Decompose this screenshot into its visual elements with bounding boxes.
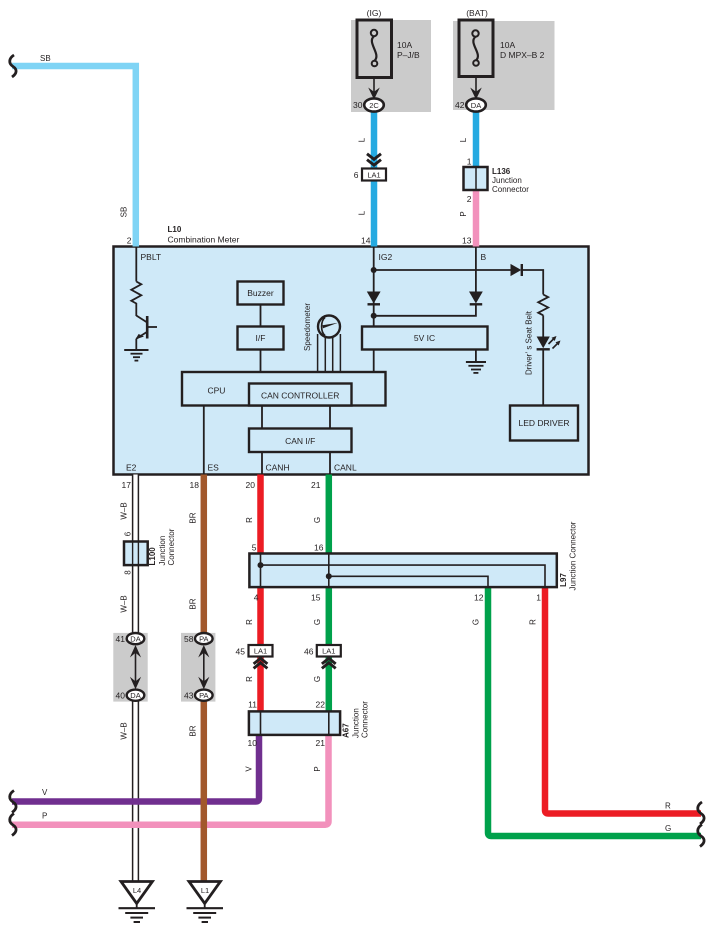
svg-text:5: 5 (252, 543, 257, 553)
svg-text:LA1: LA1 (367, 171, 380, 180)
gray panel behind fuse (IG) (351, 20, 431, 112)
wire diode D2 to node line (374, 304, 476, 316)
svg-text:18: 18 (190, 480, 200, 490)
svg-text:10A: 10A (397, 40, 412, 50)
node on IG2 wire (371, 267, 377, 273)
arrow from fuse (IG) to connector 2C (368, 78, 380, 100)
svg-text:Junction: Junction (352, 708, 361, 738)
break symbol on wire G at right edge (698, 825, 704, 847)
wire from resistor to transistor Q1 (135, 305, 137, 317)
svg-text:BR: BR (189, 725, 198, 736)
inline connector 43 PA (bottom) (184, 690, 213, 701)
inline connector arrows between DA 41 and DA 40 (130, 645, 141, 689)
diode D3 feeding seat belt lamp branch (511, 264, 522, 276)
svg-text:1: 1 (536, 593, 541, 603)
wire 5V IC to internal ground (475, 350, 477, 363)
wire P from junction connector A67 pin 21 to left edge (12, 735, 329, 825)
inline connector 58 PA (top) (184, 633, 213, 644)
wire W-B from connector DA 40 to ground L4 (120, 701, 139, 882)
wires CAN CONTROLLER to CAN I/F (262, 406, 330, 429)
fuse F2 (BAT) 10A D MPX-B 2 (459, 8, 545, 77)
connector chevrons on wire G below LA1 (322, 658, 336, 668)
arrow from fuse (BAT) to connector DA (470, 77, 482, 100)
svg-text:CAN CONTROLLER: CAN CONTROLLER (261, 391, 339, 401)
svg-text:22: 22 (316, 700, 326, 710)
svg-text:W–B: W–B (120, 502, 129, 519)
svg-text:12: 12 (474, 593, 484, 603)
connector 45 LA1 on wire R (236, 645, 273, 657)
svg-text:16: 16 (314, 543, 324, 553)
svg-text:17: 17 (122, 480, 132, 490)
connector 46 LA1 on wire G (304, 645, 341, 657)
svg-text:DA: DA (130, 634, 140, 643)
junction connector L97 (249, 521, 577, 590)
break symbol on wire P at left edge (10, 814, 16, 836)
svg-text:(IG): (IG) (367, 8, 382, 18)
svg-text:LED DRIVER: LED DRIVER (518, 418, 569, 428)
svg-text:41: 41 (116, 634, 126, 644)
svg-text:L136: L136 (492, 167, 511, 176)
wire LED to LED DRIVER (542, 349, 544, 405)
wires CAN I/F to meter pins CANH CANL (262, 452, 330, 475)
svg-text:Connector: Connector (167, 528, 176, 565)
wire BR from meter pin 18 (ES) to connector PA 58 (189, 475, 204, 634)
wire V from junction connector A67 pin 10 to left edge (12, 735, 259, 802)
svg-text:CAN I/F: CAN I/F (285, 436, 315, 446)
I/F block (238, 327, 284, 350)
svg-text:DA: DA (130, 691, 140, 700)
resistor in seat belt branch (538, 295, 548, 316)
connector chevrons on wire L above LA1 (367, 154, 381, 165)
junction connector L136 (464, 167, 530, 194)
wire IG2 inside meter to 5V IC (373, 247, 375, 327)
svg-text:Buzzer: Buzzer (247, 288, 274, 298)
svg-text:5V IC: 5V IC (414, 333, 435, 343)
svg-text:L4: L4 (133, 886, 141, 895)
svg-text:DA: DA (471, 101, 481, 110)
svg-text:Junction Connector: Junction Connector (569, 521, 578, 590)
svg-text:SB: SB (120, 207, 129, 218)
break symbol on wire SB at left edge (10, 55, 16, 77)
svg-text:L: L (358, 137, 367, 142)
svg-text:11: 11 (248, 700, 257, 710)
wire L from fuse (BAT) to junction connector L136 pin 1 (459, 106, 476, 178)
inline connector arrows between PA 58 and PA 43 (198, 645, 209, 689)
svg-text:21: 21 (311, 480, 321, 490)
svg-text:G: G (472, 619, 481, 625)
svg-text:43: 43 (184, 691, 194, 701)
svg-text:2: 2 (467, 194, 472, 204)
svg-text:ES: ES (208, 463, 220, 473)
gray panel behind inline connector DA (113, 633, 147, 702)
svg-text:G: G (313, 619, 322, 625)
svg-text:Connector: Connector (361, 701, 370, 738)
connector terminal 42 DA (455, 98, 486, 111)
buzzer block (238, 282, 284, 305)
svg-text:R: R (665, 802, 671, 811)
svg-text:L10: L10 (168, 225, 182, 234)
svg-text:P–J/B: P–J/B (397, 50, 420, 60)
svg-text:G: G (665, 824, 671, 833)
svg-text:LA1: LA1 (322, 647, 335, 656)
LED DRIVER block (510, 406, 578, 441)
wire resistor to LED (542, 315, 544, 336)
svg-text:W–B: W–B (120, 722, 129, 739)
svg-text:LA1: LA1 (254, 647, 267, 656)
LED driver's seat belt indicator (525, 310, 561, 375)
svg-text:13: 13 (462, 236, 472, 246)
svg-text:Speedometer: Speedometer (303, 303, 312, 351)
wire BR from connector PA 43 to ground L1 (189, 701, 204, 882)
wire B inside meter to diode D2 (475, 247, 477, 292)
resistor on PBLT line (131, 282, 141, 305)
svg-text:PA: PA (199, 691, 208, 700)
diode D1 on IG2 branch (367, 292, 381, 305)
svg-text:20: 20 (246, 480, 256, 490)
svg-text:1: 1 (467, 157, 472, 167)
svg-text:PA: PA (199, 634, 208, 643)
wire CPU to meter pin 18 (ES) (203, 406, 205, 475)
svg-text:58: 58 (184, 634, 194, 644)
meter bottom pin labels (126, 463, 357, 473)
svg-text:L100: L100 (148, 547, 157, 566)
wire R from meter pin 20 (CANH) to junction connector L97 pin 5 (245, 475, 261, 554)
svg-text:P: P (42, 812, 47, 821)
svg-text:CANH: CANH (266, 463, 290, 473)
svg-text:E2: E2 (126, 463, 137, 473)
svg-text:I/F: I/F (256, 333, 266, 343)
ground L4 (119, 882, 156, 923)
svg-text:8: 8 (124, 570, 133, 575)
5V IC block (362, 327, 488, 350)
svg-text:45: 45 (236, 647, 246, 657)
svg-text:L1: L1 (201, 886, 209, 895)
svg-text:PBLT: PBLT (141, 252, 162, 262)
CPU block (182, 372, 386, 406)
svg-text:Junction: Junction (492, 176, 522, 185)
svg-text:W–B: W–B (120, 595, 129, 612)
svg-text:G: G (313, 676, 322, 682)
svg-text:D MPX–B 2: D MPX–B 2 (500, 50, 545, 60)
fuse F1 (IG) 10A P-J/B (357, 8, 420, 78)
svg-text:(BAT): (BAT) (466, 8, 488, 18)
svg-text:R: R (529, 619, 538, 625)
wire W-B from meter pin 17 (E2) to connector DA 41 (120, 475, 139, 634)
wire 5V IC to CPU (373, 350, 375, 373)
wire G from meter pin 21 (CANL) to junction connector L97 pin 16 (311, 475, 329, 554)
wire L from fuse (IG) to meter pin 14 (358, 106, 375, 247)
CAN I/F block (249, 429, 352, 453)
connector terminal 30 2C (353, 98, 384, 111)
svg-text:2C: 2C (369, 101, 379, 110)
break symbol on wire R at right edge (698, 802, 704, 824)
svg-text:6: 6 (354, 170, 359, 180)
junction connector L100 (124, 528, 176, 565)
svg-text:Driver’ s Seat Belt: Driver’ s Seat Belt (525, 310, 534, 375)
svg-text:R: R (245, 676, 254, 682)
speedometer symbol (303, 303, 340, 372)
svg-text:42: 42 (455, 100, 465, 110)
combination meter L10 box (114, 225, 589, 475)
node under diode D1 (371, 313, 377, 319)
svg-text:40: 40 (116, 691, 126, 701)
junction connector A67 (248, 701, 370, 748)
svg-text:CPU: CPU (208, 386, 226, 396)
inline connector 40 DA (bottom) (116, 690, 145, 701)
svg-text:V: V (42, 788, 48, 797)
connector 6 LA1 on wire L (354, 169, 386, 181)
svg-text:6: 6 (124, 531, 133, 536)
svg-text:15: 15 (311, 593, 321, 603)
wire G from junction connector L97 pin 12 to right edge (472, 587, 702, 836)
gray panel behind fuse (BAT) (453, 21, 555, 110)
ground (internal, under 5V IC) (466, 362, 486, 373)
wire R from junction connector L97 pin 4 through LA1 to A67 pin 11 (245, 587, 261, 711)
svg-text:BR: BR (189, 512, 198, 523)
svg-text:30: 30 (353, 100, 363, 110)
svg-text:L: L (459, 137, 468, 142)
svg-text:CANL: CANL (334, 463, 357, 473)
CAN CONTROLLER block (249, 384, 352, 406)
connector chevrons on wire R below LA1 (254, 658, 268, 668)
svg-text:21: 21 (316, 738, 326, 748)
ground L1 (187, 882, 224, 923)
svg-text:A67: A67 (342, 723, 351, 738)
wire G from junction connector L97 pin 15 through LA1 to A67 pin 22 (311, 587, 329, 711)
svg-text:Combination Meter: Combination Meter (168, 235, 240, 245)
svg-text:10A: 10A (500, 40, 515, 50)
svg-text:P: P (313, 766, 322, 771)
diode D2 on B branch (469, 292, 483, 305)
svg-text:BR: BR (189, 598, 198, 609)
wire SB from left edge to meter pin 2 (12, 54, 136, 247)
svg-text:B: B (481, 252, 487, 262)
svg-text:R: R (245, 517, 254, 523)
svg-text:SB: SB (40, 54, 51, 63)
svg-text:R: R (245, 619, 254, 625)
wire from IG2 node to diode D3 (374, 269, 511, 271)
wire buzzer to I/F (260, 305, 262, 327)
wire diode D3 to seat belt resistor (522, 270, 543, 295)
svg-text:V: V (245, 766, 254, 772)
wire PBLT inside meter (135, 247, 137, 282)
svg-text:14: 14 (361, 236, 371, 246)
svg-text:G: G (313, 517, 322, 523)
ground (internal, under transistor) (124, 350, 148, 361)
svg-text:4: 4 (254, 593, 259, 603)
svg-text:46: 46 (304, 647, 314, 657)
svg-text:Connector: Connector (492, 185, 529, 194)
svg-text:Junction: Junction (158, 536, 167, 566)
svg-text:10: 10 (248, 738, 258, 748)
transistor Q1 (135, 316, 157, 340)
gray panel behind inline connector PA (181, 633, 215, 702)
wire transistor emitter to internal ground (135, 339, 137, 350)
svg-text:IG2: IG2 (379, 252, 393, 262)
inline connector 41 DA (top) (116, 633, 145, 644)
svg-text:L: L (358, 210, 367, 215)
svg-text:L97: L97 (559, 573, 568, 587)
wire P from junction connector L136 pin 2 to meter pin 13 (459, 178, 476, 247)
break symbol on wire V at left edge (10, 791, 16, 813)
wire I/F to CPU (260, 350, 262, 373)
svg-text:P: P (459, 211, 468, 216)
wire R from junction connector L97 pin 1 to right edge (529, 587, 702, 814)
svg-text:2: 2 (127, 236, 132, 246)
